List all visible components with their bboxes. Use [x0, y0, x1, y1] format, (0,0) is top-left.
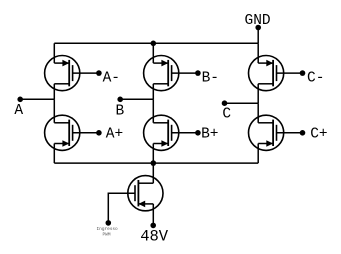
svg-text:A+: A+ [106, 127, 123, 143]
svg-text:48V: 48V [140, 228, 169, 246]
svg-text:C-: C- [307, 71, 324, 87]
wire gate lead Q1 (A-) [73, 72, 99, 74]
wire gate lead Q6 (C+) [277, 132, 303, 134]
wire gate lead Q4 (A+) [73, 132, 99, 134]
svg-text:C: C [222, 107, 231, 123]
node C terminal dot [222, 100, 228, 106]
wire source lead upper A leg [53, 84, 55, 100]
transistor Q4 (A+) [45, 115, 80, 150]
label B- [202, 71, 219, 87]
gate terminal dot Q1 (A-) [96, 70, 102, 76]
wire gate lead Q7 [108, 193, 135, 223]
transistor Q3 (C-) [249, 56, 284, 91]
label A- [103, 71, 120, 87]
svg-text:B+: B+ [201, 127, 218, 143]
node A terminal dot [17, 97, 23, 103]
wire source lead Q5 (B+) [152, 144, 154, 164]
GND terminal dot [255, 25, 261, 31]
wire gate lead Q2 (B-) [172, 72, 198, 74]
wire node B [120, 98, 153, 100]
label C+ [310, 127, 327, 143]
transistor Q1 (A-) [45, 56, 80, 91]
wire drain lead Q1 (A-) [53, 43, 55, 63]
wire drain lead Q3 (C-) [257, 43, 259, 63]
gate terminal dot Q5 (B+) [195, 130, 201, 136]
48V terminal dot [150, 223, 156, 229]
transistor Q2 (B-) [144, 56, 179, 91]
transistor Q5 (B+) [144, 115, 179, 150]
wire node C [225, 102, 259, 104]
wire drain lead lower B leg [152, 99, 154, 123]
wire drain lead Q7 [152, 163, 154, 183]
label B [116, 103, 125, 119]
gate terminal dot Q6 (C+) [300, 130, 306, 136]
wire source lead Q6 (C+) [257, 144, 259, 164]
wire GND to top rail [257, 28, 259, 44]
svg-text:B: B [116, 103, 125, 119]
node B terminal dot [117, 97, 123, 103]
gate terminal dot Q2 (B-) [195, 70, 201, 76]
svg-text:C+: C+ [310, 127, 327, 143]
wire gate lead Q3 (C-) [277, 72, 303, 74]
wire drain lead Q2 (B-) [152, 43, 154, 63]
gate terminal dot Q7 (Ingresso PWM) [106, 220, 112, 226]
label Ingresso PWM [97, 227, 118, 238]
label A [14, 103, 23, 119]
label C- [307, 71, 324, 87]
wire source lead upper C leg [257, 84, 259, 103]
svg-text:B-: B- [202, 71, 219, 87]
label B+ [201, 127, 218, 143]
svg-text:A: A [14, 103, 23, 119]
svg-text:Ingresso: Ingresso [97, 227, 118, 232]
transistor Q7 (48V switch) [128, 176, 163, 211]
wire drain lead lower C leg [257, 103, 259, 123]
wire node A [20, 98, 54, 100]
transistor Q6 (C+) [249, 115, 284, 150]
junction dot top rail / B leg [151, 41, 157, 47]
gate terminal dot Q4 (A+) [96, 130, 102, 136]
wire source lead Q4 (A+) [53, 144, 55, 164]
wire drain lead lower A leg [53, 99, 55, 123]
label A+ [106, 127, 123, 143]
GND label [245, 13, 271, 29]
label 48V [140, 228, 169, 246]
svg-text:PWM: PWM [103, 233, 111, 238]
svg-text:A-: A- [103, 71, 120, 87]
wire source lead upper B leg [152, 84, 154, 100]
wire source lead Q7 [152, 204, 154, 226]
wire gate lead Q5 (B+) [172, 132, 198, 134]
gate terminal dot Q3 (C-) [300, 70, 306, 76]
wire bottom rail [54, 162, 258, 164]
wire top rail [54, 42, 258, 44]
label C [222, 107, 231, 123]
junction dot bottom rail / B leg / Q7 drain [151, 160, 157, 166]
